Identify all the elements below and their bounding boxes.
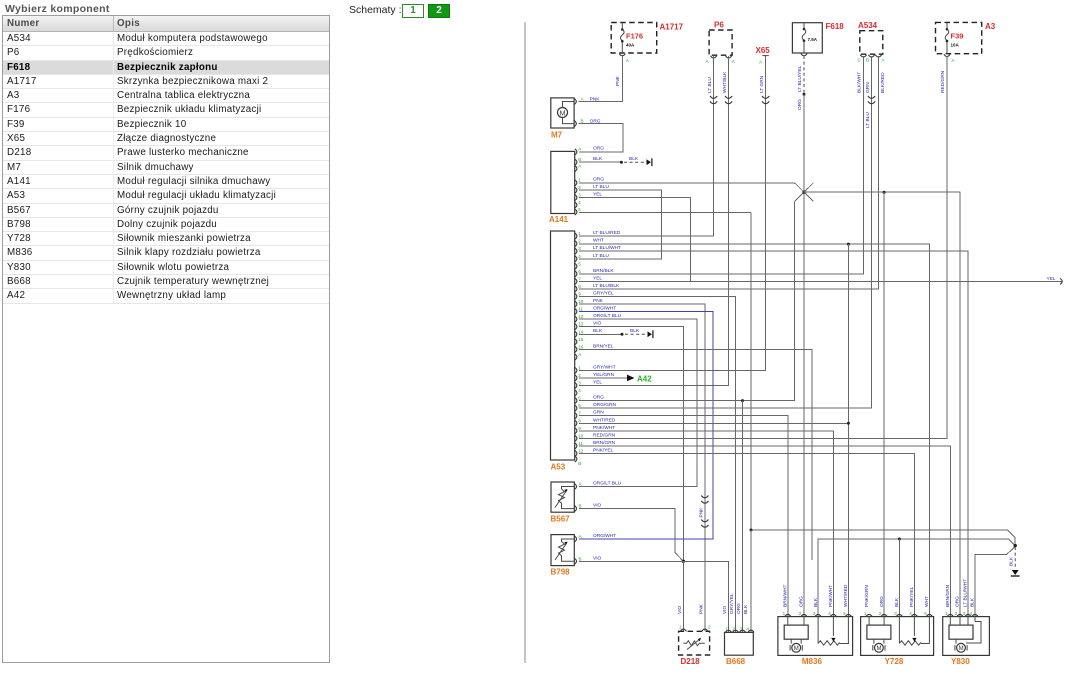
wire A53 pin 16 going right xyxy=(579,349,812,560)
svg-text:ORG: ORG xyxy=(593,146,604,152)
node VIO junction xyxy=(682,560,685,563)
wire A53 group2 pin 5 (ORG) up to junction leg xyxy=(579,202,795,401)
wire BLK bus to ground junction xyxy=(751,530,1015,546)
svg-text:PNK: PNK xyxy=(699,603,705,614)
svg-text:PNK: PNK xyxy=(593,298,604,304)
A53 pin 2 xyxy=(575,238,604,247)
wire A53 pin 11 (ORG/WHT, highlighted) to B798 pin A xyxy=(579,312,713,539)
A53 pin 3 (group 2) xyxy=(575,380,603,389)
A141 pin 1 xyxy=(575,177,604,186)
svg-text:12: 12 xyxy=(578,314,584,319)
svg-text:M7: M7 xyxy=(551,131,563,140)
svg-text:1: 1 xyxy=(578,178,581,183)
A141 pin 3 xyxy=(575,191,603,200)
svg-text:10: 10 xyxy=(578,433,584,438)
svg-text:PNK/YEL: PNK/YEL xyxy=(909,586,915,607)
node Y728 pin 3 BLK tap xyxy=(898,538,901,618)
svg-text:WHT: WHT xyxy=(924,596,930,607)
svg-text:4: 4 xyxy=(578,200,581,205)
svg-text:C: C xyxy=(858,58,862,63)
svg-text:M: M xyxy=(794,646,799,652)
svg-text:GRN: GRN xyxy=(593,410,604,416)
A53 pin 6 xyxy=(575,268,615,277)
svg-text:ORG/GRN: ORG/GRN xyxy=(593,402,616,408)
wire P6 pin A down to A53 pin 1 xyxy=(713,56,715,236)
svg-text:B: B xyxy=(866,58,869,63)
svg-text:2: 2 xyxy=(578,239,581,244)
interior temperature sensor B668 xyxy=(725,627,755,667)
svg-text:6: 6 xyxy=(578,269,581,274)
svg-text:BRN/GRN: BRN/GRN xyxy=(945,584,951,607)
svg-text:VIO: VIO xyxy=(593,503,602,509)
svg-text:Y728: Y728 xyxy=(885,657,904,666)
svg-text:WHT/BLK: WHT/BLK xyxy=(722,71,728,93)
svg-text:A: A xyxy=(732,59,735,64)
svg-text:BLK: BLK xyxy=(970,597,976,607)
svg-text:VIO: VIO xyxy=(677,605,683,614)
svg-text:F39: F39 xyxy=(951,32,964,41)
svg-text:1: 1 xyxy=(578,231,581,236)
wire A141 pin 2 to A53 pin 4 (LT BLU) xyxy=(579,190,662,259)
svg-text:BLK: BLK xyxy=(894,597,900,607)
svg-text:LT BLU: LT BLU xyxy=(593,184,609,190)
blower regulator module A141 xyxy=(549,151,575,224)
svg-text:5: 5 xyxy=(578,261,581,266)
wire WHT bus A53 pin 2 to Y728 pin 5 xyxy=(579,244,930,617)
svg-text:12: 12 xyxy=(578,448,584,453)
fusebox A1717 xyxy=(611,23,683,54)
svg-text:10A: 10A xyxy=(951,43,960,48)
svg-text:9: 9 xyxy=(578,426,581,431)
electric panel A3 xyxy=(936,22,996,54)
svg-text:B: B xyxy=(581,119,584,124)
svg-text:2: 2 xyxy=(708,625,711,630)
svg-text:LT BLU/YEL: LT BLU/YEL xyxy=(797,65,803,92)
wire A3 fuse F39 to A53 group2 pin 10 xyxy=(579,56,947,438)
svg-text:14: 14 xyxy=(578,329,584,334)
svg-text:ORG/WHT: ORG/WHT xyxy=(593,306,616,312)
A53 pin 14 xyxy=(575,329,584,337)
svg-text:ORG: ORG xyxy=(955,596,961,607)
svg-text:4: 4 xyxy=(578,388,581,393)
svg-text:GRY/YEL: GRY/YEL xyxy=(593,291,614,297)
svg-text:A: A xyxy=(578,352,581,357)
air inlet actuator Y830 xyxy=(943,614,990,666)
upper vehicle sensor B567 xyxy=(551,481,622,524)
svg-text:13: 13 xyxy=(578,322,584,327)
A53 pin B xyxy=(575,456,582,466)
svg-text:PNK/YEL: PNK/YEL xyxy=(593,447,614,453)
air mix actuator Y728 xyxy=(861,614,934,666)
wire dashed to ground xyxy=(1014,547,1016,569)
lower vehicle sensor B798 xyxy=(551,533,617,577)
svg-text:BLK: BLK xyxy=(1009,556,1015,566)
svg-text:LT BLU/WHT: LT BLU/WHT xyxy=(593,245,621,251)
wire A53 pin 12 to B567 pin A xyxy=(579,319,697,486)
svg-text:BRN/GRN: BRN/GRN xyxy=(593,440,616,446)
svg-text:YEL: YEL xyxy=(593,380,602,386)
A53 pin 9 (group 2) xyxy=(575,425,615,434)
node ORG junction xyxy=(795,183,814,202)
svg-text:B: B xyxy=(578,157,581,162)
svg-text:A: A xyxy=(579,534,582,539)
wire A53 pin 8 to A534 pin A xyxy=(579,56,879,289)
fuse F618 xyxy=(792,22,844,56)
wire F176 to M7 pin A (PNK) xyxy=(579,56,623,102)
svg-text:BLK: BLK xyxy=(593,156,603,162)
wire P6 pin B down to A53 group2 pin 3 xyxy=(579,56,729,386)
wire A141 pin 1 (ORG) to junction xyxy=(579,183,804,192)
svg-text:ORG: ORG xyxy=(736,603,742,614)
svg-text:A: A xyxy=(578,147,581,152)
svg-text:LT BLU: LT BLU xyxy=(865,112,871,128)
svg-text:PNK: PNK xyxy=(615,75,621,86)
wire YEL bus A53 pin 7 xyxy=(579,278,1063,284)
svg-text:A3: A3 xyxy=(985,22,996,31)
A53 pin 11 xyxy=(575,306,617,315)
wire B798 pin B (VIO) to B668 pin 1 xyxy=(579,561,729,632)
svg-text:A: A xyxy=(706,59,709,64)
A53 pin 12 xyxy=(575,313,622,322)
svg-text:ORG/WHT: ORG/WHT xyxy=(593,533,616,539)
svg-text:A: A xyxy=(626,58,629,63)
svg-text:YEL/GRN: YEL/GRN xyxy=(593,372,615,378)
svg-text:2: 2 xyxy=(578,373,581,378)
wire A53 group2 pin 12 to Y728 pin 4 xyxy=(579,453,915,617)
wire A53 group2 pin 11 to Y830 pin 1 xyxy=(579,446,951,617)
node ground bus junction xyxy=(1014,544,1017,547)
svg-text:3: 3 xyxy=(578,381,581,386)
svg-text:BLK: BLK xyxy=(743,604,749,614)
connector pair on PNK wire xyxy=(701,496,708,528)
svg-text:7: 7 xyxy=(578,411,581,416)
A141 pin 2 xyxy=(575,184,610,193)
svg-text:A: A xyxy=(952,58,955,63)
svg-text:ORG/LT BLU: ORG/LT BLU xyxy=(593,481,622,487)
wire BLK from M836 pin 3 along bus xyxy=(818,539,1015,617)
svg-text:6: 6 xyxy=(578,403,581,408)
A53 pin 5 (group 2) xyxy=(575,395,604,404)
svg-text:BLK/WHT: BLK/WHT xyxy=(857,72,863,93)
fuse F39 xyxy=(944,23,964,63)
svg-text:ORG/LT BLU: ORG/LT BLU xyxy=(593,313,622,319)
svg-text:BRN/WHT: BRN/WHT xyxy=(783,585,789,607)
svg-text:2: 2 xyxy=(578,185,581,190)
wire A53 pin 3 to Y830 pin 3 xyxy=(579,251,968,617)
connector on P6 pin B wire xyxy=(725,96,732,98)
svg-text:A1717: A1717 xyxy=(660,23,684,32)
svg-text:YEL: YEL xyxy=(593,191,602,197)
A53 pin 10 xyxy=(575,298,604,307)
svg-text:Y830: Y830 xyxy=(951,657,970,666)
svg-text:BLK: BLK xyxy=(629,156,639,162)
svg-text:8: 8 xyxy=(578,418,581,423)
svg-text:7: 7 xyxy=(578,276,581,281)
svg-text:WHT/RED: WHT/RED xyxy=(843,584,849,607)
svg-text:PNK/GRN: PNK/GRN xyxy=(864,585,870,607)
A53 pin 12 (group 2) xyxy=(575,447,614,456)
module A534 xyxy=(858,21,885,63)
svg-text:ORG: ORG xyxy=(593,177,604,183)
A53 pin 5 xyxy=(575,261,582,269)
svg-text:BLK: BLK xyxy=(593,328,603,334)
air-conditioning regulator module A53 xyxy=(551,231,575,472)
svg-text:A141: A141 xyxy=(549,215,569,224)
svg-text:ORG: ORG xyxy=(593,395,604,401)
A53 pin 7 (group 2) xyxy=(575,410,604,419)
A53 pin 1 xyxy=(575,230,621,239)
svg-text:F176: F176 xyxy=(626,32,643,41)
A53 pin 4 xyxy=(575,253,610,262)
node junction to Y728 pin 2 xyxy=(883,191,886,617)
svg-text:M836: M836 xyxy=(802,657,823,666)
wire VIO junction down to D218 pin 1 xyxy=(682,561,684,631)
svg-text:11: 11 xyxy=(578,441,583,446)
svg-text:M: M xyxy=(959,646,964,652)
wire ORG branch to Y830 pin 2 xyxy=(804,192,960,617)
svg-text:BRN/BLK: BRN/BLK xyxy=(593,268,614,274)
svg-text:BLK: BLK xyxy=(630,328,640,334)
connector on P6 pin A wire xyxy=(710,96,717,98)
A53 pin 4 (group 2) xyxy=(575,388,582,396)
svg-text:A: A xyxy=(882,58,885,63)
svg-text:LT BLU/RED: LT BLU/RED xyxy=(593,230,621,236)
A53 pin 1 (group 2) xyxy=(575,364,616,373)
ground symbol at A53 pin 14 xyxy=(648,331,652,337)
A141 pin B xyxy=(575,156,603,165)
svg-text:B: B xyxy=(578,461,581,466)
svg-text:GRY/YEL: GRY/YEL xyxy=(729,593,735,614)
svg-text:B: B xyxy=(579,556,582,561)
wire A534 pin B to A53 group2 pin 6 xyxy=(579,56,872,408)
svg-text:16: 16 xyxy=(578,344,584,349)
svg-text:YEL: YEL xyxy=(1047,276,1056,282)
svg-text:LT BLU/WHT: LT BLU/WHT xyxy=(963,579,969,607)
svg-text:LT BLU: LT BLU xyxy=(707,77,713,93)
svg-text:PNK/WHT: PNK/WHT xyxy=(593,425,615,431)
svg-text:5: 5 xyxy=(578,396,581,401)
wire A53 group2 pin 2 to lamp module A42 xyxy=(579,375,635,382)
A53 pin 10 (group 2) xyxy=(575,432,616,441)
svg-text:RED/GRN: RED/GRN xyxy=(593,432,616,438)
svg-text:VIO: VIO xyxy=(593,321,602,327)
svg-text:LT BLU/BLK: LT BLU/BLK xyxy=(593,283,620,289)
connector on A534 pin B wire xyxy=(868,96,875,98)
svg-text:B: B xyxy=(579,504,582,509)
svg-text:PNK: PNK xyxy=(699,507,705,518)
A141 pin A xyxy=(575,146,604,155)
svg-text:8: 8 xyxy=(578,284,581,289)
A53 pin 16 xyxy=(575,343,614,352)
svg-text:3: 3 xyxy=(578,192,581,197)
A53 pin 13 xyxy=(575,321,602,330)
svg-text:GRN: GRN xyxy=(865,82,871,93)
svg-text:B798: B798 xyxy=(551,568,571,577)
wire A141 pin 5 to BLK riser xyxy=(579,212,751,530)
A53 pin 11 (group 2) xyxy=(575,440,616,449)
A141 pin A xyxy=(575,163,582,171)
svg-text:VIO: VIO xyxy=(722,605,728,614)
wire X65 down to A53 group2 pin 1 xyxy=(579,56,766,370)
wire A53 group2 pin 9 to M836 pin 4 xyxy=(579,431,834,617)
wire B567 pin B (VIO) to junction xyxy=(579,509,684,562)
fuse F176 xyxy=(619,23,643,63)
svg-text:4: 4 xyxy=(578,254,581,259)
svg-text:11: 11 xyxy=(578,307,583,312)
ground symbol at A141 pin B xyxy=(647,158,652,166)
wire A53 pin 9 to B668 pin 2 xyxy=(579,297,736,633)
svg-text:A: A xyxy=(579,482,582,487)
wire A141 pin 3 (YEL) to YEL bus xyxy=(579,198,691,282)
svg-text:B668: B668 xyxy=(726,657,746,666)
svg-text:M: M xyxy=(560,110,566,117)
connector on X65 wire xyxy=(762,96,769,98)
svg-text:10: 10 xyxy=(578,299,584,304)
A53 pin 9 xyxy=(575,291,614,300)
air distribution flap motor M836 xyxy=(778,614,853,666)
svg-text:3: 3 xyxy=(578,246,581,251)
separator line xyxy=(524,22,526,663)
wire A53 pin 10 (PNK) to D218 pin 2 xyxy=(579,304,705,631)
svg-text:A: A xyxy=(759,60,762,65)
svg-text:40A: 40A xyxy=(626,43,635,48)
svg-text:A: A xyxy=(581,97,584,102)
svg-text:A534: A534 xyxy=(858,21,878,30)
svg-text:BRN/YEL: BRN/YEL xyxy=(593,343,614,349)
node ORG tap to B668 pin 3 xyxy=(741,399,744,632)
svg-text:D218: D218 xyxy=(681,657,701,666)
A53 pin 2 (group 2) xyxy=(575,372,615,381)
wire A53 pin 1 stub xyxy=(579,235,714,237)
svg-text:9: 9 xyxy=(578,292,581,297)
svg-text:WHT/RED: WHT/RED xyxy=(593,417,616,423)
svg-text:RED/GRN: RED/GRN xyxy=(940,70,946,93)
svg-text:PNK/WHT: PNK/WHT xyxy=(828,585,834,607)
A141 pin 4 xyxy=(575,200,582,208)
svg-text:BLK: BLK xyxy=(813,597,819,607)
svg-text:LT GRN: LT GRN xyxy=(759,75,765,93)
svg-text:BLK/RED: BLK/RED xyxy=(880,72,886,93)
A53 pin 7 xyxy=(575,275,603,284)
node WHT bus tap to M836 pin 5 xyxy=(847,243,850,617)
svg-text:5: 5 xyxy=(578,207,581,212)
wire A53 pin 6 to A534 pin C xyxy=(579,56,864,274)
ground symbol bottom right xyxy=(1012,570,1019,575)
svg-text:F618: F618 xyxy=(826,22,845,31)
svg-text:A42: A42 xyxy=(637,374,652,383)
wire A53 pin 13 (VIO) to junction xyxy=(579,327,684,562)
wire A53 group2 pin 8 joins M836 pin 5 riser xyxy=(579,422,850,425)
A141 pin 5 xyxy=(575,207,582,215)
component P6 xyxy=(706,21,735,65)
svg-text:VIO: VIO xyxy=(593,555,602,561)
svg-text:LT BLU: LT BLU xyxy=(593,253,609,259)
node BLK tap to B668 pin 4 xyxy=(750,529,753,633)
A53 pin 8 xyxy=(575,283,620,292)
wire ORG trunk from F618 down to M836 pin 2 xyxy=(803,56,806,617)
wire A53 group2 pin 7 to M836 pin 1 xyxy=(579,416,788,617)
wire M7 pin B to A141 pin A (ORG) xyxy=(579,124,623,152)
svg-text:A: A xyxy=(578,163,581,168)
svg-text:M: M xyxy=(877,646,882,652)
A53 pin 6 (group 2) xyxy=(575,402,617,411)
svg-text:P6: P6 xyxy=(714,21,724,30)
A53 pin A xyxy=(575,352,582,360)
svg-text:X65: X65 xyxy=(756,46,771,55)
svg-text:7.5A: 7.5A xyxy=(808,37,818,42)
blower motor M7 xyxy=(551,96,601,139)
svg-text:YEL: YEL xyxy=(593,275,602,281)
svg-text:ORG: ORG xyxy=(879,596,885,607)
svg-text:ORG: ORG xyxy=(797,99,803,110)
mirror D218 xyxy=(679,625,711,667)
svg-text:GRY/WHT: GRY/WHT xyxy=(593,364,616,370)
wire A53 pin 14 to ground (BLK) xyxy=(579,328,646,336)
A53 pin 15 xyxy=(575,337,584,345)
wire BLK from Y830 pin 4 to ground bus xyxy=(975,547,1015,618)
A53 pin 3 xyxy=(575,245,621,254)
svg-text:A53: A53 xyxy=(551,463,566,472)
svg-text:ORG: ORG xyxy=(799,596,805,607)
svg-text:WHT: WHT xyxy=(593,238,604,244)
A53 pin 8 (group 2) xyxy=(575,417,616,426)
wire A141 pin B to ground (BLK) xyxy=(579,156,645,164)
svg-text:1: 1 xyxy=(578,365,581,370)
svg-text:B567: B567 xyxy=(551,515,571,524)
connector X65 xyxy=(756,46,771,65)
svg-text:15: 15 xyxy=(578,337,584,342)
svg-text:1: 1 xyxy=(679,625,682,630)
